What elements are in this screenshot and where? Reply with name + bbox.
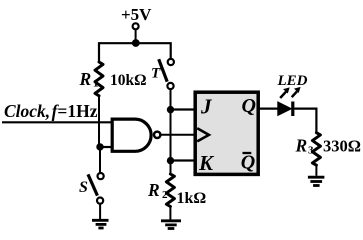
nand bubble xyxy=(154,132,160,138)
wire xyxy=(135,30,137,44)
wire xyxy=(99,147,101,173)
resistor R2 xyxy=(166,174,174,207)
resistor R1 xyxy=(95,62,103,96)
nand gate U1 xyxy=(112,119,151,151)
wire J input xyxy=(171,108,196,110)
svg-text:K: K xyxy=(198,151,215,175)
svg-text:R: R xyxy=(147,180,160,200)
wire nand output xyxy=(161,134,195,136)
wire xyxy=(98,96,100,148)
clock triangle xyxy=(197,128,209,141)
wire xyxy=(315,165,317,176)
switch S xyxy=(98,173,104,179)
wire Q output xyxy=(259,107,278,109)
svg-text:2: 2 xyxy=(162,189,168,201)
svg-text:10kΩ: 10kΩ xyxy=(110,72,147,89)
ground under R2 xyxy=(161,221,181,229)
junction xyxy=(132,39,140,47)
junction xyxy=(96,143,103,150)
svg-text:Clock, f=1Hz: Clock, f=1Hz xyxy=(4,101,98,121)
wire xyxy=(99,204,101,219)
svg-text:Q: Q xyxy=(241,152,255,174)
svg-text:J: J xyxy=(200,95,213,119)
junction J-input xyxy=(167,106,174,113)
resistor R3 xyxy=(312,133,320,166)
svg-text:R: R xyxy=(295,135,308,155)
svg-text:+5V: +5V xyxy=(121,5,152,24)
+5V terminal xyxy=(133,23,139,29)
wire xyxy=(99,43,171,62)
svg-text:3: 3 xyxy=(308,145,314,157)
switch T xyxy=(168,59,174,65)
svg-text:R: R xyxy=(79,69,92,89)
ground under S xyxy=(92,220,109,228)
svg-text:1: 1 xyxy=(93,78,99,90)
wire xyxy=(170,89,172,174)
wire clock input xyxy=(2,121,112,123)
svg-text:T: T xyxy=(151,66,161,82)
svg-text:LED: LED xyxy=(277,73,308,89)
svg-text:Q: Q xyxy=(242,95,256,117)
flip-flop U2 box xyxy=(195,92,258,174)
ground under R3 xyxy=(308,177,325,185)
wire xyxy=(294,109,316,133)
junction K-input xyxy=(167,157,174,164)
wire K input xyxy=(171,159,196,161)
wire xyxy=(100,146,113,148)
LED D1 xyxy=(278,102,292,116)
LED arrows xyxy=(280,87,300,98)
svg-text:S: S xyxy=(79,179,88,196)
svg-text:1kΩ: 1kΩ xyxy=(177,190,207,207)
wire xyxy=(169,207,171,220)
svg-text:330Ω: 330Ω xyxy=(323,136,361,155)
